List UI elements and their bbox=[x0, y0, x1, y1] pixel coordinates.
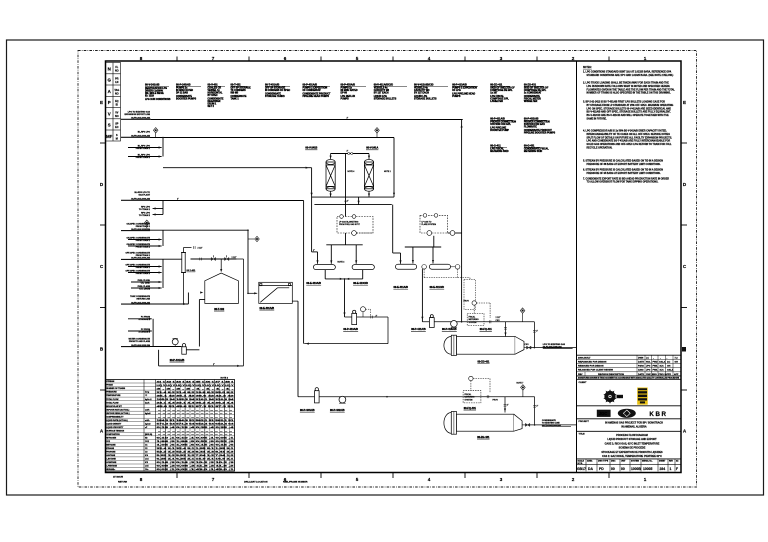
svg-text:5: 5 bbox=[356, 56, 359, 61]
svg-text:0.14 .3 0.14 .3 10.2 .3 10.2 .: 0.14 .3 0.14 .3 10.2 .3 10.2 .3 bbox=[157, 461, 237, 464]
svg-text:VAPOUR RATE (ACTUAL): VAPOUR RATE (ACTUAL) bbox=[106, 408, 129, 411]
wire blanketing line right bbox=[448, 232, 462, 234]
svg-text:00-P-413A/B: 00-P-413A/B bbox=[343, 328, 358, 331]
svg-text:FWA: FWA bbox=[653, 369, 658, 372]
equipment title block 00-V-431 bbox=[208, 84, 226, 109]
feed flow diamonds bbox=[153, 128, 158, 133]
svg-text:TOTAL FLOW: TOTAL FLOW bbox=[106, 401, 118, 404]
svg-text:00-ZG-411: 00-ZG-411 bbox=[478, 361, 491, 364]
svg-text:1: 1 bbox=[670, 467, 672, 471]
equipment title block 00-ZG-431 bbox=[524, 84, 549, 104]
svg-text:5: 5 bbox=[356, 477, 359, 482]
drum 00-ZG-411 bbox=[444, 335, 524, 355]
drawing frame bbox=[106, 61, 682, 473]
feed label tank condensate return bbox=[130, 295, 151, 305]
svg-text:NO: NO bbox=[115, 92, 119, 95]
svg-text:RE-ISSUED FOR CLIENT REVIEW: RE-ISSUED FOR CLIENT REVIEW bbox=[578, 370, 614, 372]
pump 00-P-431A/B bbox=[172, 339, 178, 345]
svg-text:2 1/2": 2 1/2" bbox=[496, 317, 501, 319]
svg-text:CAS 1: GAZ RICHE, TEMPERATURE: CAS 1: GAZ RICHE, TEMPERATURE D'ENTREE 6… bbox=[602, 455, 662, 458]
feed label BL-RFG LPG bbox=[131, 131, 151, 137]
wire on-spec condensate drop bbox=[247, 230, 249, 293]
wire E-431 outlet drop to pumps bbox=[297, 301, 299, 397]
contractor logos: oval bbox=[618, 409, 636, 418]
svg-text:PROJECT: PROJECT bbox=[579, 421, 590, 423]
pump row 00-P-434 / 00-P-432 condensate export bbox=[298, 396, 535, 398]
svg-text:8: 8 bbox=[140, 56, 143, 61]
svg-text:STORAGE 2: STORAGE 2 bbox=[138, 330, 150, 333]
trim dash-dot border bbox=[78, 51, 697, 488]
svg-text:DRILL/ART LOCATION: DRILL/ART LOCATION bbox=[244, 481, 268, 484]
svg-text:- - - - - - - - - -: - - - - - - - - - - - - - - - - bbox=[158, 409, 233, 411]
svg-text:HEXANE+: HEXANE+ bbox=[106, 468, 116, 471]
svg-text:00: 00 bbox=[621, 467, 625, 471]
svg-text:PD: PD bbox=[599, 467, 604, 471]
svg-text:2: 2 bbox=[572, 56, 575, 61]
svg-text:REEL/FRAME NUMBER: REEL/FRAME NUMBER bbox=[283, 481, 308, 484]
wire off-spec condensate to storage bbox=[159, 365, 244, 367]
svg-text:RE(P)ISSUED FOR DESIGN: RE(P)ISSUED FOR DESIGN bbox=[578, 361, 607, 363]
zone number ticks bottom bbox=[177, 473, 609, 479]
svg-text:N: N bbox=[108, 67, 111, 72]
equipment title block 00-P-433A/B bbox=[341, 84, 367, 101]
svg-text:2: 2 bbox=[572, 477, 575, 482]
svg-text:2": 2" bbox=[507, 404, 509, 406]
svg-text:nC5: nC5 bbox=[145, 466, 149, 468]
svg-text:NO: NO bbox=[115, 115, 119, 118]
svg-text:3: 3 bbox=[500, 56, 503, 61]
svg-text:00-E-411A/B: 00-E-411A/B bbox=[394, 286, 409, 289]
svg-text:n-PENTANE: n-PENTANE bbox=[106, 465, 117, 468]
svg-text:OIL TANK: OIL TANK bbox=[141, 282, 151, 285]
svg-text:1: 1 bbox=[644, 56, 647, 61]
svg-text:GALA: GALA bbox=[659, 360, 666, 363]
svg-text:35.1 42 35.1 42 38.6 42 42.3 4: 35.1 42 35.1 42 38.6 42 42.3 42 bbox=[157, 394, 236, 397]
svg-text:CASE 1: RICH GAS, 62°C INLET T: CASE 1: RICH GAS, 62°C INLET TEMPERATURE bbox=[605, 442, 660, 445]
wire cooler bank distribution left bbox=[326, 244, 362, 246]
svg-text:NOTE 7: NOTE 7 bbox=[517, 383, 524, 385]
svg-text:00-P-434A/B: 00-P-434A/B bbox=[300, 409, 315, 412]
svg-text:F: F bbox=[676, 467, 678, 471]
flow diamond condensate export bbox=[521, 385, 526, 390]
svg-text:REVISION DESCRIPTION: REVISION DESCRIPTION bbox=[598, 374, 624, 376]
svg-text:571.3 64 571.3 64 652.4 64 652: 571.3 64 571.3 64 652.4 64 652.4 64 bbox=[157, 423, 236, 426]
svg-text:00-T-432: 00-T-432 bbox=[214, 308, 225, 311]
wire off-spec condensate feed bbox=[150, 258, 182, 260]
svg-text:- - - - - - - - - -: - - - - - - - - - - - - - - - - bbox=[158, 417, 233, 419]
svg-text:52.2 3.3 52.2 3.3 8.41 3.3 8.4: 52.2 3.3 52.2 3.3 8.41 3.3 8.41 3.3 bbox=[157, 451, 236, 454]
zone numbers bottom bbox=[140, 477, 647, 482]
svg-text:KBR: KBR bbox=[649, 411, 667, 418]
svg-text:kg/m3: kg/m3 bbox=[145, 423, 150, 425]
pump row 00-P-413 bbox=[304, 317, 388, 344]
svg-text:C2: C2 bbox=[145, 448, 147, 450]
svg-text:0.13 .4 0.13 .4 0.35 .4 0.35 .: 0.13 .4 0.13 .4 0.35 .4 0.35 .4 bbox=[157, 426, 237, 429]
svg-text:PROPANE: PROPANE bbox=[106, 451, 116, 454]
blanketing dashed box right bbox=[420, 215, 448, 233]
svg-text:STREAM: STREAM bbox=[106, 380, 114, 383]
svg-text:00-P-431A/B: 00-P-431A/B bbox=[170, 359, 185, 362]
svg-text:CSO: CSO bbox=[525, 344, 530, 346]
wire drier outlet manifold bbox=[312, 196, 394, 198]
dashed drains E-411 bbox=[424, 269, 475, 309]
svg-text:NOTES:: NOTES: bbox=[583, 67, 592, 69]
svg-text:CLIENT: CLIENT bbox=[579, 382, 588, 384]
zone number ticks top bbox=[177, 57, 609, 62]
svg-text:AT ISSUE: AT ISSUE bbox=[113, 476, 123, 479]
wire drier inlet manifold bbox=[331, 153, 370, 155]
zone letters bbox=[100, 100, 687, 434]
svg-text:NOTE 4: NOTE 4 bbox=[338, 261, 345, 263]
equipment title block 00-ZG-411 bbox=[490, 84, 515, 104]
flow diamond LPG export bbox=[520, 308, 525, 313]
exchanger 00-E-431A/B bbox=[259, 282, 293, 303]
svg-text:METERING: METERING bbox=[469, 319, 480, 321]
svg-text:00-P-411A/B: 00-P-411A/B bbox=[411, 328, 426, 331]
svg-text:45.6 51 45.6 51 87.3 51 87.3 5: 45.6 51 45.6 51 87.3 51 87.3 51 bbox=[157, 405, 236, 408]
svg-text:00: 00 bbox=[611, 467, 615, 471]
svg-text:NUMBER OF TRAINS: NUMBER OF TRAINS bbox=[106, 387, 126, 390]
svg-text:n-BUTANE: n-BUTANE bbox=[106, 458, 116, 461]
svg-text:DATE: DATE bbox=[638, 360, 644, 363]
svg-text:00-P-432A/B: 00-P-432A/B bbox=[330, 409, 345, 412]
svg-text:E: E bbox=[100, 100, 103, 105]
svg-text:8: 8 bbox=[140, 477, 143, 482]
svg-text:NOTE 4: NOTE 4 bbox=[348, 171, 355, 173]
svg-text:TITLE: TITLE bbox=[579, 434, 586, 436]
svg-text:00-ZG-431: 00-ZG-431 bbox=[477, 436, 490, 439]
svg-text:kg/h x1: kg/h x1 bbox=[145, 399, 152, 401]
svg-text:6.25 2.1 6.25 2.1 16.9 2.1 16.: 6.25 2.1 6.25 2.1 16.9 2.1 16.9 2.1 bbox=[157, 459, 236, 461]
svg-text:7: 7 bbox=[212, 56, 215, 61]
svg-text:DISC: DISC bbox=[611, 461, 616, 463]
svg-text:JGC: JGC bbox=[599, 411, 608, 416]
svg-text:K.O. DRUM: K.O. DRUM bbox=[139, 289, 150, 291]
wire cooler bank collection left bbox=[324, 270, 326, 279]
wire branch arrows left side bbox=[128, 147, 162, 149]
svg-text:FROM FUEL GAS SYST: FROM FUEL GAS SYST bbox=[339, 223, 361, 226]
wire drum 431 inlet bbox=[504, 397, 506, 413]
svg-text:FROM TRAIN 1: FROM TRAIN 1 bbox=[136, 225, 151, 228]
zone numbers top bbox=[140, 56, 647, 61]
notes text bbox=[583, 67, 675, 184]
svg-text:1: 1 bbox=[644, 477, 647, 482]
svg-text:C1: C1 bbox=[145, 445, 147, 447]
svg-text:EC: EC bbox=[115, 126, 119, 129]
svg-text:2": 2" bbox=[347, 200, 349, 202]
svg-text:FISCAL: FISCAL bbox=[465, 393, 472, 396]
wire BL-RFG LPG feed bbox=[150, 137, 394, 139]
svg-text:PROCESS FLOW DIAGRAM: PROCESS FLOW DIAGRAM bbox=[616, 434, 647, 437]
equipment title block 00-P-413A/B bbox=[452, 84, 478, 99]
feed label LPG to existing bbox=[124, 110, 150, 119]
svg-text:kg/m3: kg/m3 bbox=[145, 413, 150, 415]
svg-text:SURFACE TENSION: SURFACE TENSION bbox=[106, 429, 125, 432]
svg-text:ENG: ENG bbox=[652, 374, 657, 376]
subcooler 00-E-411A/B bbox=[396, 264, 417, 269]
svg-text:. . . .: . . . . bbox=[621, 413, 632, 415]
wire drier verticals bbox=[311, 168, 313, 252]
pump row 00-P-411 LPG export bbox=[422, 321, 534, 323]
svg-text:41 1 42 1 43 1 44 1 45 1 46 1: 41 1 42 1 43 1 44 1 45 1 46 1 47 1 48 1 bbox=[157, 380, 236, 383]
blanketing dashed box left bbox=[337, 217, 373, 234]
svg-text:SYSTEM: SYSTEM bbox=[631, 461, 639, 463]
revision table bbox=[577, 355, 682, 376]
contractor logos: JGC bbox=[597, 410, 611, 417]
svg-text:FISCAL: FISCAL bbox=[469, 316, 476, 319]
wire condensate export corner bbox=[534, 397, 536, 425]
drum 00-ZG-431 bbox=[444, 412, 522, 435]
svg-text:00-E-413A/B: 00-E-413A/B bbox=[306, 282, 321, 285]
svg-text:SCHEMA DE PROCEDE: SCHEMA DE PROCEDE bbox=[619, 447, 646, 450]
feed label on-spec condensate bbox=[126, 222, 150, 231]
svg-text:3 . 3 . 3 . 3 . 1 . 1 . 1 . 1: 3 . 3 . 3 . 3 . 1 . 1 . 1 . 1 . bbox=[157, 388, 236, 390]
svg-text:ID: ID bbox=[116, 104, 119, 107]
svg-text:SIGNATURES SHOWN IN THIS DOCUM: SIGNATURES SHOWN IN THIS DOCUMENT IS ACC… bbox=[578, 376, 680, 379]
svg-text:FWD: FWD bbox=[653, 361, 658, 363]
svg-text:PROV: PROV bbox=[493, 400, 499, 402]
svg-text:METHANE: METHANE bbox=[106, 444, 116, 447]
svg-text:PRESSURE: PRESSURE bbox=[106, 392, 117, 394]
svg-text:P: P bbox=[108, 100, 111, 105]
svg-text:PHASE: PHASE bbox=[106, 384, 113, 387]
svg-text:GALA: GALA bbox=[667, 369, 674, 372]
meter circles on blanketing line bbox=[427, 231, 432, 236]
svg-text:NOL: NOL bbox=[646, 361, 651, 363]
svg-text:CSO: CSO bbox=[496, 320, 501, 322]
svg-text:EXPANSION EXPORT LINE: EXPANSION EXPORT LINE bbox=[124, 113, 150, 116]
svg-text:i-BUTANE: i-BUTANE bbox=[106, 454, 116, 457]
legend table bbox=[106, 63, 121, 142]
svg-text:IN AMENAS, ALGERIA: IN AMENAS, ALGERIA bbox=[621, 426, 647, 429]
subcooler 00-E-413C/D bbox=[352, 265, 374, 270]
svg-text:NITROGEN: NITROGEN bbox=[106, 438, 117, 440]
svg-text:FLARE SYSTEM: FLARE SYSTEM bbox=[422, 223, 437, 226]
svg-text:32.4 9.1 32.4 9.1 1.95 9.1 1.9: 32.4 9.1 32.4 9.1 1.95 9.1 1.95 9.1 bbox=[157, 447, 236, 450]
wire cooler bank distribution right bbox=[405, 246, 441, 248]
svg-text:NO: NO bbox=[115, 70, 119, 73]
svg-text:FROM TRAIN 2: FROM TRAIN 2 bbox=[136, 272, 151, 275]
svg-text:P2/02: P2/02 bbox=[638, 366, 645, 368]
wire BL-RFG LPG to gas plant bbox=[150, 200, 304, 202]
svg-text:FWA: FWA bbox=[653, 365, 658, 368]
svg-text:E: E bbox=[683, 100, 686, 105]
svg-text:CO2: CO2 bbox=[145, 441, 149, 443]
svg-text:CO2: CO2 bbox=[106, 441, 110, 443]
svg-text:V: V bbox=[108, 111, 111, 116]
svg-text:- - - - - - - - - -: - - - - - - - - - - - - - - - - bbox=[158, 434, 233, 436]
equipment title block 00-V-412A/B/C/D bbox=[414, 84, 448, 101]
svg-text:00-V-241A: 00-V-241A bbox=[366, 147, 378, 150]
drier vessel 00-V-241B bbox=[326, 154, 335, 198]
equipment title block 00-P-411A/B bbox=[490, 118, 516, 133]
drier vessel 00-V-241A bbox=[364, 154, 373, 198]
svg-text:ETHANE: ETHANE bbox=[106, 447, 115, 450]
svg-text:AC: AC bbox=[667, 360, 671, 363]
svg-text:VAPOUR DENS (ACTUAL): VAPOUR DENS (ACTUAL) bbox=[106, 412, 130, 415]
svg-text:0.10 .1 0.10 .1 0.05 .1 0.05 .: 0.10 .1 0.10 .1 0.05 .1 0.05 .1 bbox=[157, 438, 237, 440]
svg-text:FROM TRAIN 1: FROM TRAIN 1 bbox=[136, 147, 151, 150]
svg-text:IN AMENAS GAS PROJECT FOR BP /: IN AMENAS GAS PROJECT FOR BP / SONATRACH bbox=[605, 422, 663, 425]
equipment title block 00-V-411A/B/C/D bbox=[374, 84, 407, 101]
svg-text:184.3 51 184.3 51 562.1 51 562: 184.3 51 184.3 51 562.1 51 562.1 51 bbox=[157, 419, 236, 422]
svg-text:GH: GH bbox=[675, 361, 679, 363]
svg-text:00-E-431A/B: 00-E-431A/B bbox=[260, 307, 275, 310]
svg-text:DATE: DATE bbox=[638, 373, 644, 376]
svg-text:00-P-415A/B: 00-P-415A/B bbox=[442, 328, 457, 331]
svg-text:RETURN LINE: RETURN LINE bbox=[137, 298, 151, 300]
svg-text:SJC: SJC bbox=[660, 370, 665, 372]
svg-text:00-Y-431: 00-Y-431 bbox=[187, 269, 197, 272]
tank 00-T-432 bbox=[205, 273, 239, 303]
notes separator line bbox=[576, 61, 578, 473]
svg-text:STOCKAGE ET EXPEDITION DE PROD: STOCKAGE ET EXPEDITION DE PRODUITS LIQUI… bbox=[601, 451, 663, 454]
svg-text:SJC: SJC bbox=[660, 366, 665, 368]
svg-text:23.1 4.4 23.1 4.4 36.2 4.4 36.: 23.1 4.4 23.1 4.4 36.2 4.4 36.2 4.4 bbox=[157, 401, 236, 404]
svg-text:COMPOSITION: COMPOSITION bbox=[106, 434, 120, 436]
svg-text:6: 6 bbox=[284, 56, 287, 61]
svg-text:00-V-241B: 00-V-241B bbox=[305, 147, 317, 150]
svg-text:1000B: 1000B bbox=[631, 467, 642, 471]
wire on-spec condensate feed bbox=[150, 229, 248, 231]
feed label BL-RFG LPG to train bbox=[131, 192, 151, 201]
svg-text:LIQUID DENSITY: LIQUID DENSITY bbox=[106, 423, 122, 425]
svg-text:00-FQ-431: 00-FQ-431 bbox=[464, 407, 477, 410]
zone letter ticks left and right bbox=[100, 143, 687, 390]
svg-text:AREA: AREA bbox=[587, 460, 593, 463]
equipment title block 00-T-432 bbox=[231, 84, 252, 101]
svg-text:1.84 .9 1.84 .9 0.52 .9 0.52 .: 1.84 .9 1.84 .9 0.52 .9 0.52 .9 bbox=[157, 440, 237, 443]
svg-text:REV: REV bbox=[578, 374, 583, 376]
svg-text:SERIAL No.: SERIAL No. bbox=[642, 460, 653, 463]
svg-text:0.08 .2 0.08 .2 11.8 .2 11.8 .: 0.08 .2 0.08 .2 11.8 .2 11.8 .2 bbox=[157, 466, 237, 468]
svg-text:- - - - - - - - - -: - - - - - - - - - - - - - - - - bbox=[158, 413, 233, 415]
svg-text:FROM TRAIN 1: FROM TRAIN 1 bbox=[136, 254, 151, 257]
svg-text:FROM TRAIN 2: FROM TRAIN 2 bbox=[136, 156, 151, 159]
svg-text:G: G bbox=[107, 78, 111, 83]
equipment title block 00-V-241A/B bbox=[145, 84, 171, 101]
svg-text:N2: N2 bbox=[145, 438, 147, 440]
svg-text:12/02: 12/02 bbox=[638, 370, 644, 372]
wire drier regen header bbox=[314, 204, 391, 206]
svg-text:7: 7 bbox=[212, 477, 215, 482]
wire LPG collector to driers bbox=[163, 167, 312, 169]
svg-text:CHK: CHK bbox=[646, 374, 651, 376]
subcooler 00-E-411C/D bbox=[429, 264, 450, 269]
svg-text:29/06-BUILT: 29/06-BUILT bbox=[578, 357, 591, 359]
svg-text:LIQUID RATE (ACTUAL): LIQUID RATE (ACTUAL) bbox=[106, 419, 128, 422]
svg-text:MOLECULAR WT: MOLECULAR WT bbox=[106, 405, 122, 408]
wire tank condensate return bbox=[150, 303, 188, 305]
fiscal metering skid 411 bbox=[472, 301, 476, 305]
svg-text:C3: C3 bbox=[145, 452, 147, 454]
svg-text:LIQ V LIQ V LIQ V LIQ V LIQ V: LIQ V LIQ V LIQ V LIQ V LIQ V LIQ V LIQ … bbox=[157, 385, 235, 387]
motor circles E-411 bbox=[422, 265, 427, 270]
svg-text:DWG TYPE: DWG TYPE bbox=[598, 461, 609, 463]
svg-text:00-FQ-411: 00-FQ-411 bbox=[480, 328, 493, 331]
below frame annotation texts bbox=[113, 476, 308, 484]
svg-text:2 1/2": 2 1/2" bbox=[198, 247, 203, 249]
svg-text:LIQUID PRODUCT STORAGE AND EXP: LIQUID PRODUCT STORAGE AND EXPORT bbox=[607, 438, 657, 441]
svg-text:SYSTEM: SYSTEM bbox=[465, 399, 473, 401]
wire collector verticals bbox=[162, 138, 164, 157]
equipment title block 00-T-431A/B bbox=[265, 84, 290, 99]
svg-text:LN: LN bbox=[115, 81, 118, 84]
svg-text:4: 4 bbox=[428, 477, 431, 482]
wire storage feed long drop bbox=[461, 120, 463, 322]
wire water condensate suction bbox=[150, 346, 182, 348]
svg-text:(MOL%): (MOL%) bbox=[145, 434, 153, 436]
equipment title block 00-P-243A/B bbox=[176, 84, 201, 101]
svg-text:LP GAS TO: LP GAS TO bbox=[422, 221, 432, 224]
equipment title block 00-P-432A/B bbox=[524, 118, 556, 135]
svg-text:GAS PLANT: GAS PLANT bbox=[138, 193, 150, 196]
fiscal metering skid 431 bbox=[469, 376, 473, 380]
svg-text:LC: LC bbox=[646, 357, 649, 359]
svg-text:105.3 94 105.3 94 316.1 94 316: 105.3 94 105.3 94 316.1 94 316.3 94 bbox=[157, 398, 236, 401]
svg-text:FROM TK AND FLARE: FROM TK AND FLARE bbox=[129, 340, 151, 343]
svg-text:0.02 .1 0.02 .1 43.0 .1 43.0 .: 0.02 .1 0.02 .1 43.0 .1 43.0 .1 bbox=[157, 468, 237, 471]
svg-text:M: M bbox=[116, 137, 118, 140]
svg-text:JPG: JPG bbox=[646, 366, 651, 368]
svg-text:LP GAS BLANKETING: LP GAS BLANKETING bbox=[339, 221, 359, 224]
svg-text:BL-RFG LPG: BL-RFG LPG bbox=[138, 131, 151, 133]
svg-text:FROM TRAIN 1: FROM TRAIN 1 bbox=[136, 239, 151, 242]
svg-text:00-E-413C/D: 00-E-413C/D bbox=[353, 282, 368, 285]
svg-text:i-PENTANE: i-PENTANE bbox=[106, 461, 117, 464]
wire gas plant return drop bbox=[303, 201, 305, 344]
svg-text:PROV: PROV bbox=[464, 300, 470, 302]
wire drum 411 inlet bbox=[505, 322, 507, 337]
feed label off-spec condensate bbox=[125, 251, 150, 259]
svg-text:LIQUID VISCOSITY: LIQUID VISCOSITY bbox=[106, 427, 124, 429]
svg-text:DA: DA bbox=[588, 467, 593, 471]
svg-text:FROM TRAIN 2: FROM TRAIN 2 bbox=[136, 245, 151, 248]
wire pump 431 discharge bbox=[186, 349, 199, 351]
svg-text:PUMPS 2 EXPEDITIONOF CONDENSAT: PUMPS 2 EXPEDITIONOF CONDENSATCONDENSATE… bbox=[303, 88, 332, 99]
equipment title block 00-G-431 bbox=[524, 145, 549, 154]
strainer 00-Y-431 bbox=[181, 248, 192, 273]
blanketing pump circle bbox=[352, 231, 357, 236]
wire LPG export corner bbox=[533, 322, 535, 348]
svg-text:S: S bbox=[108, 123, 111, 128]
svg-text:DWN: DWN bbox=[638, 357, 644, 359]
svg-text:MF: MF bbox=[106, 134, 113, 139]
arrows bbox=[149, 125, 507, 412]
svg-text:GB17: GB17 bbox=[577, 467, 586, 471]
svg-text:bp: bp bbox=[617, 395, 621, 399]
wire E-411 suction drop bbox=[421, 269, 423, 322]
svg-text:TEMPERATURE: TEMPERATURE bbox=[106, 394, 121, 397]
svg-text:3: 3 bbox=[500, 477, 503, 482]
equipment title block 00-G-411 bbox=[490, 145, 509, 154]
svg-text:10005: 10005 bbox=[643, 467, 653, 471]
svg-text:SYSTEM: SYSTEM bbox=[469, 322, 477, 324]
svg-text:5.92 1.2 5.92 1.2 7.04 1.2 7.0: 5.92 1.2 5.92 1.2 7.04 1.2 7.04 1.2 bbox=[157, 454, 236, 457]
wire LPG rundown header bbox=[151, 119, 463, 121]
svg-text:2 1/2": 2 1/2" bbox=[232, 257, 237, 259]
number band bbox=[577, 459, 682, 472]
svg-text:FROM TRAIN 1: FROM TRAIN 1 bbox=[136, 266, 151, 269]
svg-text:1.05 .6 1.05 .6 0.15 .6 0.15 .: 1.05 .6 1.05 .6 0.15 .6 0.15 .6 bbox=[157, 445, 237, 447]
svg-text:RETURN: RETURN bbox=[118, 482, 128, 484]
svg-text:TO TRAIN 1: TO TRAIN 1 bbox=[139, 208, 151, 211]
bp logo bbox=[603, 389, 623, 404]
equipment title block 00-P-431A/B bbox=[303, 84, 332, 99]
svg-text:TO TRAIN 2: TO TRAIN 2 bbox=[139, 214, 151, 217]
svg-text:NOTE 1: NOTE 1 bbox=[384, 171, 391, 173]
svg-text:GH: GH bbox=[667, 366, 671, 368]
